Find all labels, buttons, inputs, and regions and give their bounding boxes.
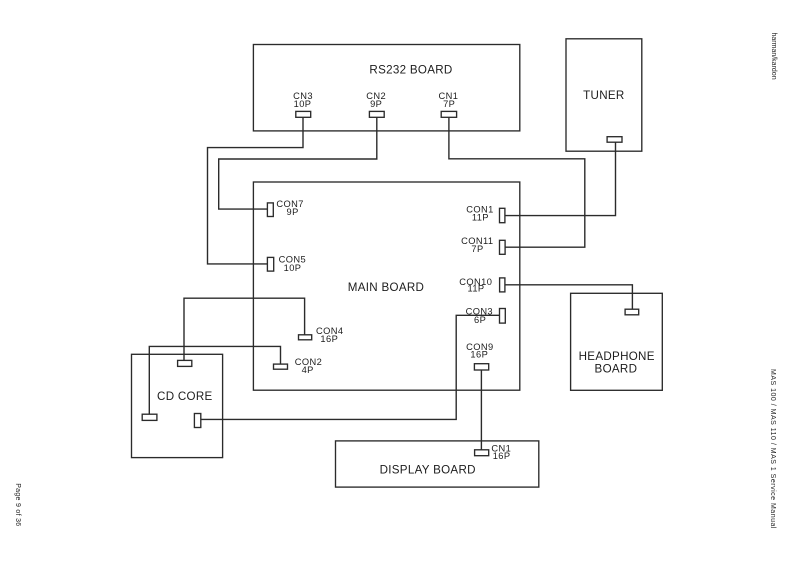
connector CN1 (display) (475, 450, 489, 456)
svg-text:16P: 16P (470, 349, 488, 359)
connector CN3 (RS232) (296, 111, 311, 117)
connector headphone (625, 309, 639, 315)
RS232 board box (253, 45, 519, 131)
connector CON9 (main) (474, 364, 488, 370)
connector CON4 (main) (299, 335, 312, 340)
connector CN1 (RS232) (441, 111, 456, 117)
svg-text:BOARD: BOARD (595, 363, 638, 376)
svg-text:DISPLAY BOARD: DISPLAY BOARD (380, 464, 476, 477)
display board box (336, 441, 539, 487)
svg-text:4P: 4P (302, 365, 314, 375)
connector CON10 (main) (500, 278, 505, 292)
wire CON4 to cd core top (184, 298, 305, 360)
svg-text:10P: 10P (294, 99, 312, 109)
connector CON1 (main) (500, 208, 505, 222)
connector CON7 (main) (267, 203, 273, 217)
wire CON2 to cd core left (149, 346, 280, 414)
wire CON10 to headphone (505, 285, 633, 309)
svg-text:9P: 9P (370, 99, 382, 109)
svg-text:MAS 100 / MAS 110 / MAS 1 Serv: MAS 100 / MAS 110 / MAS 1 Service Manual (769, 369, 776, 529)
svg-text:11P: 11P (467, 284, 484, 294)
svg-text:CD CORE: CD CORE (157, 390, 213, 403)
connector cd core top (178, 360, 192, 366)
svg-text:11P: 11P (472, 212, 489, 222)
connector CON3 (main) (500, 309, 506, 324)
cd core box (132, 354, 223, 457)
svg-text:Page 9 of 36: Page 9 of 36 (14, 483, 21, 526)
svg-text:RS232 BOARD: RS232 BOARD (369, 64, 452, 77)
svg-text:16P: 16P (493, 451, 511, 461)
headphone board box (571, 293, 663, 390)
wire CON3 to cd core right (201, 315, 500, 419)
wire CON9 to CN1 display (480, 370, 482, 450)
wire CN2 to CON7 (219, 117, 377, 209)
connector CON2 (main) (274, 364, 288, 369)
svg-text:10P: 10P (284, 263, 302, 273)
svg-text:7P: 7P (471, 244, 483, 254)
connector cd core right (194, 414, 200, 428)
wire CN1 to CON11 (449, 117, 585, 247)
main board box (253, 182, 519, 390)
wire tuner to CON1 (505, 142, 616, 215)
tuner box (566, 39, 642, 151)
connector tuner (607, 137, 622, 143)
svg-text:16P: 16P (320, 334, 338, 344)
svg-text:TUNER: TUNER (583, 89, 624, 102)
svg-text:MAIN BOARD: MAIN BOARD (348, 281, 424, 294)
svg-text:harman/kardon: harman/kardon (770, 33, 777, 80)
connector cd core left (142, 414, 157, 420)
connector CON5 (main) (267, 257, 273, 271)
wire CN3 to CON5 (208, 117, 304, 264)
svg-text:7P: 7P (443, 99, 455, 109)
svg-text:HEADPHONE: HEADPHONE (579, 350, 655, 363)
connector CON11 (main) (500, 240, 506, 254)
svg-text:6P: 6P (474, 315, 486, 325)
svg-text:9P: 9P (287, 207, 299, 217)
connector CN2 (RS232) (369, 111, 384, 117)
